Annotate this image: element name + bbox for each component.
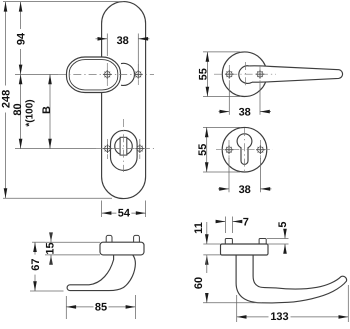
- screw rosette1 left: [225, 70, 234, 79]
- lever side rosette bar: [221, 244, 269, 255]
- svg-text:15: 15: [44, 242, 56, 254]
- centerline rosette2 vertical: [244, 128, 246, 172]
- lever side stud left: [225, 239, 232, 245]
- screw cylinder right: [135, 144, 144, 153]
- extension line cylinder centerline left: [15, 148, 96, 150]
- svg-text:55: 55: [197, 144, 209, 156]
- dimension 11: [203, 243, 220, 245]
- svg-text:55: 55: [198, 68, 210, 80]
- cylinder slot bar: [120, 137, 127, 155]
- dimension 38 top: [106, 34, 108, 57]
- dimension 80 *(100): [20, 74, 22, 148]
- dimension 85: [65, 296, 67, 319]
- lever boss: [239, 66, 252, 84]
- svg-text:7: 7: [243, 216, 249, 228]
- centerline cylinder horizontal: [96, 148, 154, 150]
- svg-text:133: 133: [270, 311, 288, 323]
- centerline rosette1 horizontal: [214, 73, 276, 75]
- screw knob axis: [103, 70, 112, 79]
- cylinder circle: [115, 137, 133, 155]
- screw rosette2 left: [225, 145, 234, 154]
- dimension B: [49, 74, 51, 148]
- knob side stud right: [134, 235, 140, 242]
- screw cylinder left: [103, 144, 112, 153]
- knob side plate: [100, 242, 144, 255]
- screw plate right: [134, 70, 143, 79]
- svg-text:38: 38: [239, 107, 251, 119]
- svg-text:60: 60: [193, 277, 205, 289]
- extension line plate top: [3, 1, 124, 3]
- dimension 54: [101, 201, 103, 218]
- centerline boss vertical: [245, 62, 247, 87]
- dimension 38 rosette2: [228, 158, 230, 192]
- centerline cylinder vertical: [123, 119, 125, 172]
- screw rosette2 right: [256, 145, 265, 154]
- centerline cylinder screws vertical: [107, 139, 109, 159]
- knob neck: [121, 63, 135, 85]
- cylinder escutcheon oval: [111, 130, 138, 170]
- dimension 248: [5, 2, 7, 199]
- dimension 67: [32, 241, 45, 243]
- screw rosette1 right: [256, 70, 265, 79]
- centerline knob screws vertical: [106, 63, 108, 86]
- centerline knob horizontal: [58, 73, 154, 75]
- centerline rosette2 horizontal: [216, 149, 273, 151]
- dimension 94: [20, 2, 22, 75]
- svg-text:*(100): *(100): [24, 99, 35, 126]
- dimension 7: [224, 217, 226, 234]
- svg-text:85: 85: [95, 302, 107, 314]
- rosette 1 circle: [222, 52, 267, 97]
- svg-text:67: 67: [30, 258, 42, 270]
- knob side stud left: [106, 235, 112, 242]
- euro profile rosette2: [237, 134, 252, 165]
- knob outer: [67, 57, 121, 93]
- knob side grip: [67, 255, 135, 291]
- extension line plate bottom: [3, 197, 112, 199]
- dimension 5: [267, 238, 289, 240]
- lever side stud right: [259, 239, 266, 245]
- dimension 38 rosette1: [228, 84, 230, 115]
- backplate outline: [102, 2, 146, 199]
- svg-text:11: 11: [193, 222, 205, 234]
- svg-text:94: 94: [16, 32, 28, 45]
- svg-text:38: 38: [117, 35, 129, 47]
- centerline rosette1 screws vertical: [228, 65, 230, 84]
- centerline rosette2 screws vertical: [228, 140, 230, 159]
- lever side handle: [236, 255, 346, 303]
- svg-text:80: 80: [12, 103, 24, 115]
- svg-text:248: 248: [1, 90, 13, 108]
- dimension 133: [236, 295, 238, 322]
- svg-text:38: 38: [239, 184, 251, 196]
- dimension 60: [206, 255, 208, 303]
- svg-text:B: B: [41, 106, 53, 114]
- extension line knob centerline left: [15, 73, 58, 75]
- dimension 55 rosette2: [203, 126, 240, 128]
- rosette 2 circle: [222, 127, 267, 172]
- svg-text:5: 5: [277, 221, 289, 227]
- svg-text:54: 54: [118, 208, 131, 220]
- knob inner: [69, 60, 118, 90]
- dimension 55 rosette1: [203, 51, 240, 53]
- dimension 15: [45, 241, 100, 243]
- lever handle: [249, 66, 342, 82]
